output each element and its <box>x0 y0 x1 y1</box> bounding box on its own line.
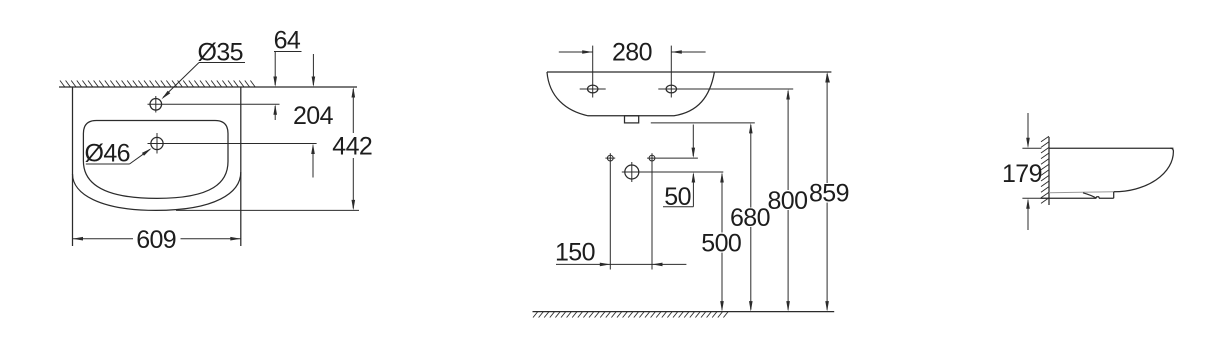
drain outlet rectangle <box>625 116 639 123</box>
drain hole centerlines <box>148 143 317 145</box>
basin underside ledge (side view) <box>1049 192 1114 193</box>
dimension 609 <box>73 238 241 240</box>
floor hatching <box>533 312 728 318</box>
svg-text:280: 280 <box>612 38 652 66</box>
svg-text:680: 680 <box>730 204 770 232</box>
wall hatching (top view) <box>60 81 255 88</box>
basin top line (side view) <box>1049 147 1173 149</box>
basin outer outline (top view) <box>73 87 241 246</box>
basin inner outline (top view) <box>83 121 228 199</box>
svg-text:64: 64 <box>274 27 301 55</box>
basin left profile curve <box>547 72 714 116</box>
wall hatching (side view) <box>1041 136 1049 203</box>
mounting hole left <box>588 85 598 93</box>
svg-text:Ø35: Ø35 <box>198 38 243 66</box>
dimension 64 <box>274 52 302 121</box>
svg-text:800: 800 <box>768 187 808 215</box>
floor line <box>533 311 835 313</box>
extension line basin bottom (442) <box>176 209 359 211</box>
basin front profile curve (side view) <box>1114 148 1174 192</box>
wall line (top view) <box>59 86 357 88</box>
dimension 680 <box>750 125 752 310</box>
extension line drain bottom <box>651 122 755 124</box>
svg-text:204: 204 <box>293 102 334 130</box>
dimension 442 <box>352 89 354 208</box>
drain hole Ø46 circle <box>151 137 163 149</box>
svg-text:500: 500 <box>701 230 741 258</box>
dimension 50 <box>663 125 693 207</box>
svg-text:609: 609 <box>136 226 176 254</box>
basin bottom line (side view) <box>1041 197 1114 199</box>
dimension 500 <box>721 174 723 310</box>
label Ø46 leader <box>86 149 150 164</box>
faucet hole Ø35 circle <box>150 99 162 111</box>
dimension 150 <box>556 163 686 270</box>
faucet hole centerlines <box>148 103 280 105</box>
svg-text:442: 442 <box>332 132 372 160</box>
wall line (side view) <box>1048 137 1050 205</box>
dimension 204 <box>312 54 314 178</box>
svg-text:50: 50 <box>664 183 691 211</box>
dimension 859 <box>826 74 828 310</box>
dimension 800 <box>787 91 789 310</box>
dimension 280 <box>559 46 706 98</box>
svg-text:150: 150 <box>555 238 595 266</box>
label Ø35 leader <box>163 63 245 98</box>
basin top line + extension (front view) <box>547 71 831 73</box>
svg-text:Ø46: Ø46 <box>85 140 130 168</box>
supply cross left <box>605 153 615 163</box>
dimension 179 <box>1022 113 1049 230</box>
svg-text:179: 179 <box>1002 160 1042 188</box>
trap circle with crosshair <box>625 165 639 179</box>
mounting hole right <box>666 85 676 93</box>
svg-text:859: 859 <box>809 180 849 208</box>
supply cross right <box>647 153 698 163</box>
